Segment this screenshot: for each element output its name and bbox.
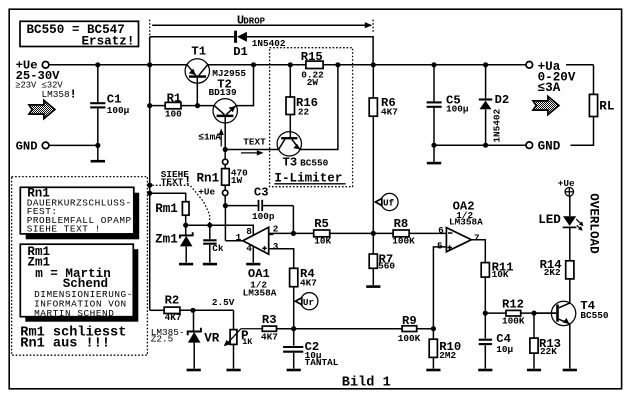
resistor Rn1 (197, 152, 249, 206)
svg-text:2K2: 2K2 (544, 267, 561, 278)
annotation SIEHE TEXT (161, 169, 192, 189)
svg-text:BC550: BC550 (300, 158, 329, 169)
svg-text:Z2.5: Z2.5 (151, 333, 174, 344)
node T1 base (195, 103, 200, 108)
label I-Limiter (274, 171, 345, 185)
node VR top (190, 308, 195, 313)
svg-text:GND: GND (538, 139, 561, 153)
resistor R6 (369, 65, 398, 234)
svg-text:Ck: Ck (212, 243, 224, 254)
resistor Rm1 (150, 193, 189, 225)
node C5 bottom (431, 143, 436, 148)
wire D1 branch up (149, 37, 151, 65)
node R16 top (288, 62, 293, 67)
svg-text:22K: 22K (540, 346, 557, 357)
terminal +Ua (526, 60, 576, 95)
diode D2 (479, 65, 509, 145)
wire D1 right (247, 37, 373, 65)
svg-text:SIEHE TEXT !: SIEHE TEXT ! (27, 224, 101, 235)
svg-text:R3: R3 (262, 313, 277, 327)
node R1 left (147, 103, 152, 108)
ground P (227, 369, 241, 372)
svg-text:Uf: Uf (383, 198, 395, 209)
svg-text:6: 6 (438, 225, 444, 236)
node C1 top (95, 62, 100, 67)
ground Ck (203, 263, 217, 266)
transistor T2 (209, 77, 238, 149)
node T2 emitter (223, 147, 228, 152)
svg-text:R2: R2 (165, 294, 180, 308)
svg-text:!: ! (70, 87, 77, 101)
terminal +Ue (15, 59, 77, 102)
node annot (147, 183, 152, 188)
svg-text:T1: T1 (191, 44, 206, 58)
ground C2 (287, 369, 301, 372)
wire rail R15 to +Ua (323, 64, 526, 66)
node C5 top (431, 62, 436, 67)
wire T4 collector (569, 279, 571, 303)
note Rm1 schliesst (20, 325, 126, 351)
capacitor C3 (225, 186, 293, 222)
diode D1 (233, 31, 286, 59)
resistor R15 (301, 50, 324, 88)
note box Rn1 (20, 186, 139, 239)
svg-text:Rn1: Rn1 (197, 171, 220, 185)
node D2 top (483, 62, 488, 67)
svg-text:100: 100 (165, 108, 182, 119)
resistor R7 (369, 233, 395, 285)
LED (538, 196, 583, 231)
svg-text:2M2: 2M2 (439, 350, 456, 361)
terminal GND right (526, 139, 561, 153)
svg-text:10K: 10K (314, 236, 331, 247)
svg-text:Rn1 aus !!!: Rn1 aus !!! (20, 337, 110, 352)
svg-text:100K: 100K (502, 316, 525, 327)
svg-text:Ersatz!: Ersatz! (82, 34, 135, 48)
resistor R11 (481, 261, 513, 314)
node Ck top (207, 223, 212, 228)
svg-text:1K: 1K (242, 337, 253, 347)
svg-text:R5: R5 (314, 217, 329, 231)
resistor R13 (530, 313, 561, 369)
node T2 collector (251, 62, 256, 67)
svg-text:+Ue: +Ue (198, 186, 215, 197)
wire +Ue rail left (49, 64, 187, 66)
svg-text:8: 8 (246, 226, 252, 237)
node C3 right (291, 231, 296, 236)
svg-text:1W: 1W (231, 175, 243, 186)
svg-text:100µ: 100µ (446, 104, 469, 115)
svg-text:LM358A: LM358A (243, 288, 277, 299)
svg-text:C3: C3 (254, 186, 269, 200)
wire T2 to rail (236, 65, 253, 106)
transistor T1 (185, 44, 246, 105)
svg-text:Zm1: Zm1 (155, 232, 178, 246)
resistor R16 (286, 65, 318, 137)
load RL (566, 65, 614, 145)
svg-text:R1: R1 (167, 91, 182, 105)
svg-text:2: 2 (273, 223, 279, 234)
svg-text:Rm1: Rm1 (155, 202, 178, 216)
svg-text:2W: 2W (307, 77, 319, 88)
svg-text:TANTAL: TANTAL (305, 357, 339, 368)
wire T2 node to T3 base (225, 149, 278, 151)
bubble Ur (295, 293, 318, 310)
capacitor Ck (203, 225, 224, 263)
ground OA1 pin4 (246, 246, 260, 264)
svg-text:DROP: DROP (243, 16, 265, 26)
svg-text:LM358A: LM358A (449, 217, 483, 228)
node C1 bottom (95, 143, 100, 148)
ground Zm1 (179, 263, 193, 266)
svg-text:RL: RL (599, 100, 614, 114)
svg-text:100K: 100K (398, 333, 421, 344)
node D2 bottom (483, 143, 488, 148)
dotted +Ue annotation (152, 185, 215, 225)
svg-text:VR: VR (204, 332, 220, 346)
svg-text:10K: 10K (492, 269, 509, 280)
note box BC550=BC547 (20, 21, 139, 48)
svg-text:7: 7 (474, 232, 480, 243)
wire left vertical bus (149, 65, 151, 310)
node R6 top (371, 62, 376, 67)
svg-text:D2: D2 (495, 93, 510, 107)
wire GND right (434, 144, 526, 146)
Udrop measure line (150, 13, 373, 35)
svg-text:R12: R12 (502, 298, 524, 312)
svg-text:MARTIN SCHEND: MARTIN SCHEND (34, 308, 114, 319)
ground C5 (427, 145, 441, 163)
ground R7 (366, 285, 380, 288)
svg-text:+Ue: +Ue (558, 178, 575, 189)
wire OA2 pin5 (433, 247, 446, 329)
resistor R4 (290, 267, 317, 329)
svg-text:BD139: BD139 (209, 87, 238, 98)
wire GND left (49, 144, 98, 146)
svg-text:R9: R9 (402, 314, 417, 328)
node R12 left (483, 311, 488, 316)
capacitor C5 (427, 65, 469, 145)
svg-text:1N5402: 1N5402 (491, 108, 502, 142)
wire supply node (186, 225, 254, 235)
note box Rm1 Zm1 (20, 244, 138, 322)
svg-text:R15: R15 (301, 50, 323, 64)
op-amp OA1 (225, 206, 276, 299)
svg-text:R8: R8 (394, 217, 409, 231)
svg-text:4K7: 4K7 (300, 277, 317, 288)
node D1 branch (147, 62, 152, 67)
svg-text:100µ: 100µ (107, 105, 130, 116)
svg-text:1: 1 (236, 232, 242, 243)
node R4 bottom (291, 326, 296, 331)
capacitor C4 (479, 313, 514, 369)
wire OA1 pin3 to R4 (269, 249, 294, 269)
svg-text:4: 4 (246, 243, 252, 254)
svg-text:560: 560 (378, 261, 395, 272)
resistor R8 (392, 217, 446, 246)
svg-text:10µ: 10µ (496, 344, 513, 355)
svg-text:TEXT: TEXT (243, 137, 266, 148)
svg-text:LED: LED (538, 213, 561, 227)
svg-text:Bild 1: Bild 1 (342, 376, 391, 391)
svg-text:4K7: 4K7 (381, 106, 398, 117)
svg-text:BC550: BC550 (580, 310, 609, 321)
resistor R1 (150, 91, 215, 119)
svg-text:LM358: LM358 (42, 89, 71, 100)
output block arrow (533, 96, 559, 114)
I-Limiter dotted box (270, 48, 353, 187)
input block arrow (29, 100, 55, 118)
ground R10 (426, 369, 440, 372)
svg-text:5: 5 (437, 241, 443, 252)
svg-text:≤3A: ≤3A (538, 81, 561, 95)
wire rail T1 to R15 (208, 64, 306, 66)
wire C3 to inv input (292, 206, 294, 234)
annotation TEXT arrow (241, 137, 266, 156)
node T3 right (335, 62, 340, 67)
resistor R14 (540, 228, 574, 279)
wire R3 node to R9 (294, 328, 402, 330)
svg-text:4K7: 4K7 (261, 332, 278, 343)
wire OA2 pin7 (471, 240, 485, 263)
info dotted box (12, 177, 148, 356)
resistor R2 (150, 294, 234, 323)
svg-text:D1: D1 (233, 45, 248, 59)
svg-text:4K7: 4K7 (165, 312, 182, 323)
capacitor C2 (283, 329, 339, 369)
node Rm1 branch (147, 191, 152, 196)
resistor R10 (429, 329, 461, 369)
svg-text:2.5V: 2.5V (212, 297, 235, 308)
ground VR (187, 369, 201, 372)
svg-text:100p: 100p (252, 211, 275, 222)
wire T4 emitter (569, 324, 571, 369)
ground C1 (91, 145, 105, 161)
svg-text:Ur: Ur (303, 297, 314, 308)
ground C4 (478, 369, 492, 372)
svg-text:100K: 100K (392, 236, 415, 247)
zener VR (151, 310, 220, 368)
zener Zm1 (155, 225, 193, 263)
svg-text:OVERLOAD: OVERLOAD (587, 193, 601, 254)
node R10 top (431, 326, 436, 331)
terminal GND left (16, 140, 49, 154)
resistor R5 (314, 217, 393, 246)
ground R13 (527, 369, 541, 372)
svg-text:3: 3 (273, 241, 279, 252)
svg-text:22: 22 (298, 107, 310, 118)
wire D1 left (150, 36, 236, 38)
transistor T4 (534, 299, 609, 325)
svg-text:T3: T3 (283, 156, 298, 170)
transistor T3 (277, 132, 329, 170)
resistor R9 (398, 314, 434, 344)
op-amp OA2 (437, 200, 483, 252)
bubble Uf (375, 193, 398, 210)
capacitor C1 (90, 65, 129, 146)
node OA1 output (223, 203, 228, 208)
resistor R3 (241, 313, 294, 343)
node R6 bottom (371, 231, 376, 236)
resistor R12 (485, 298, 556, 327)
svg-text:GND: GND (16, 140, 38, 154)
node R13 top (531, 311, 536, 316)
wire T3 emitter to rail (300, 65, 338, 150)
wire OA1 pin2 (269, 232, 314, 234)
node Zm1 top (183, 223, 188, 228)
symbol +Ue tap (558, 178, 575, 196)
ground T4 (563, 369, 577, 372)
svg-text:≤1mA: ≤1mA (198, 132, 221, 143)
annotation 1mA arrow (198, 128, 223, 146)
potentiometer P (224, 310, 254, 368)
